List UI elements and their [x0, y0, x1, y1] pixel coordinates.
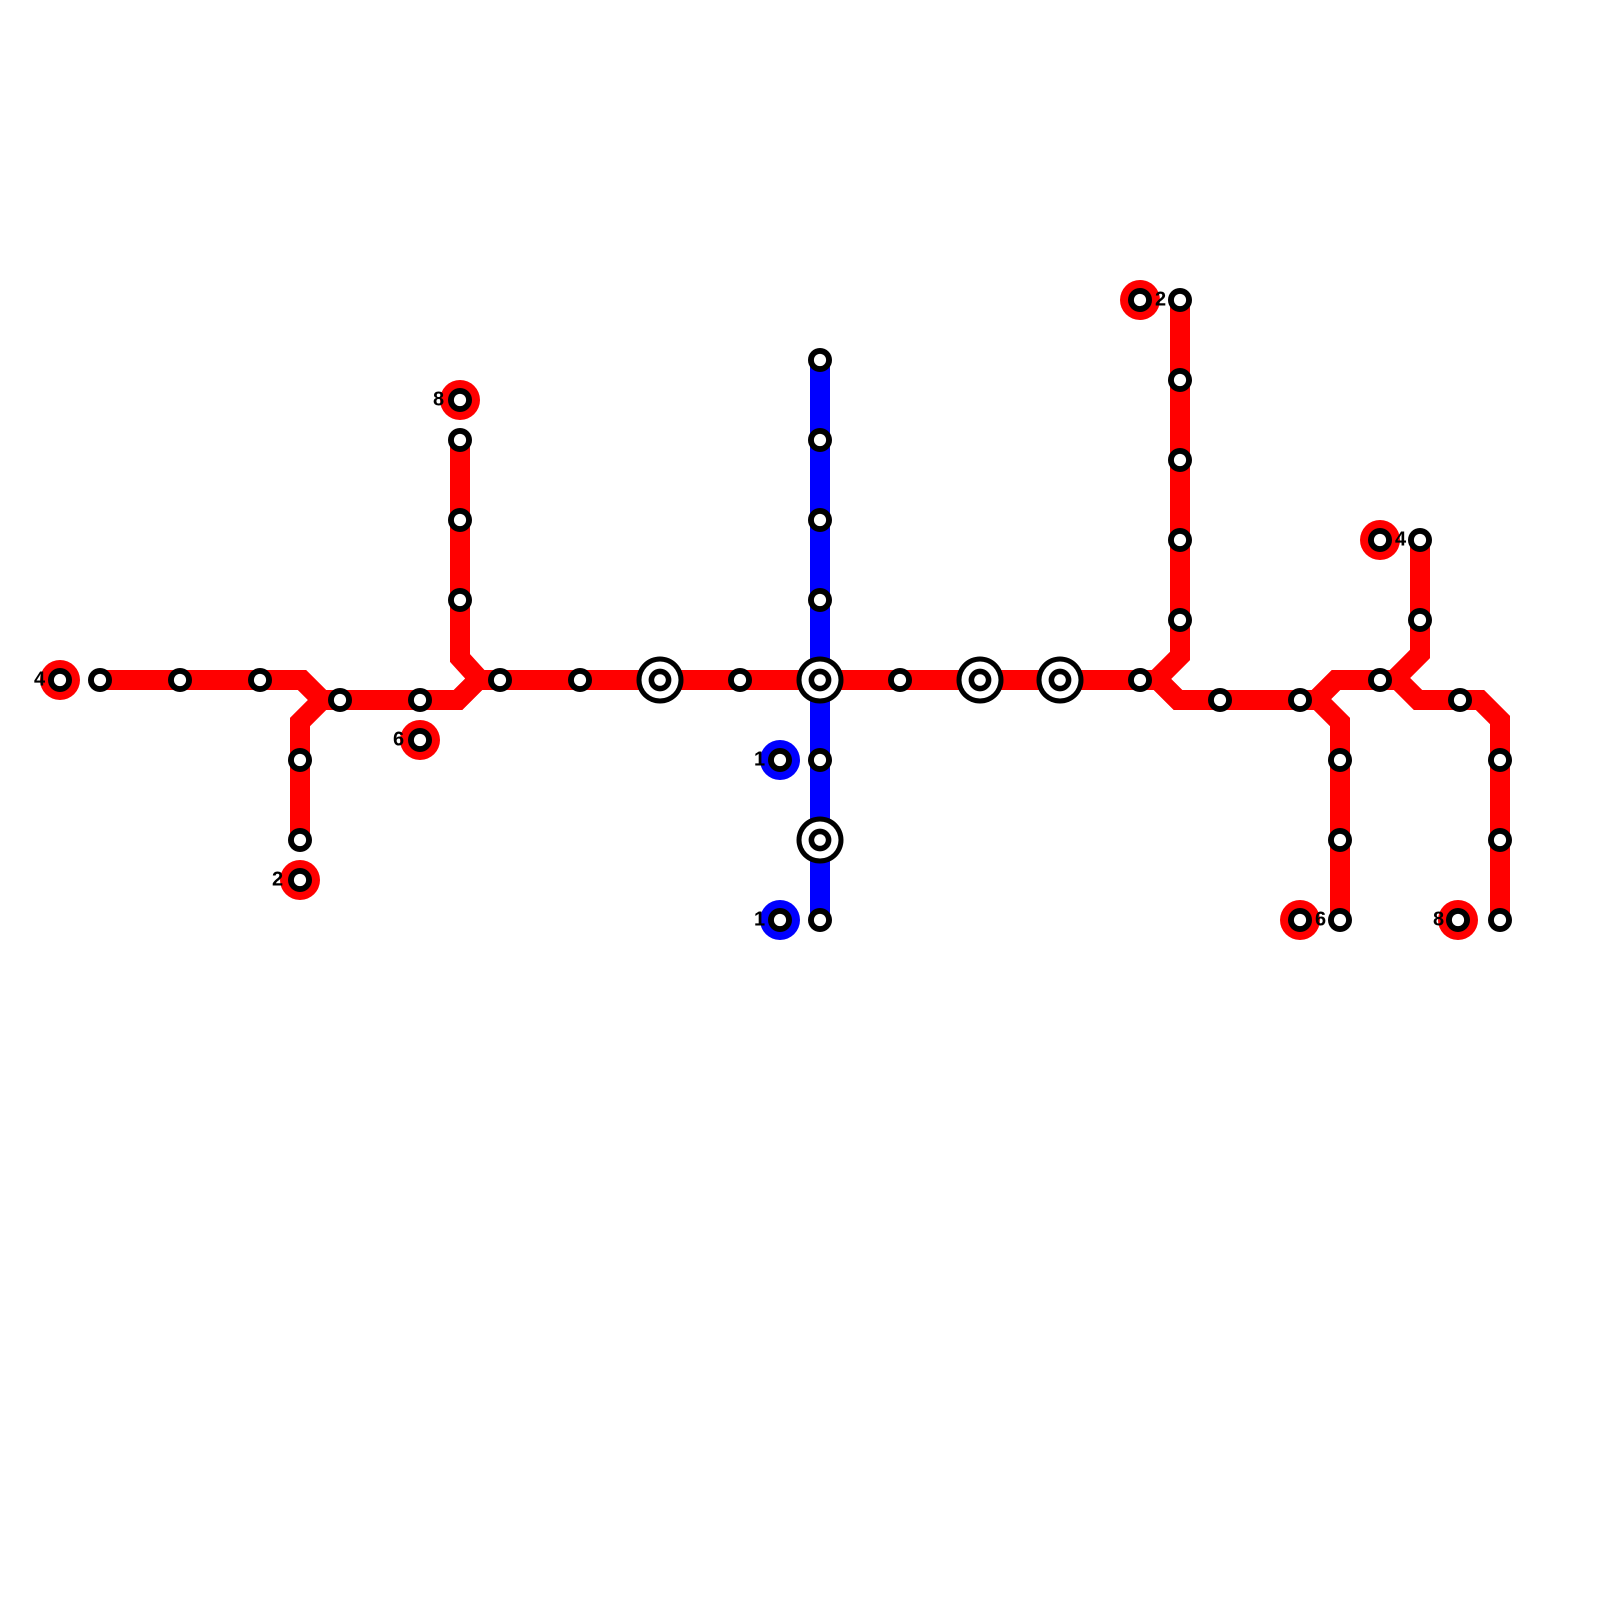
svg-text:1: 1 — [754, 909, 765, 931]
node station (1420,540) — [1408, 528, 1432, 552]
node station (460,440) — [448, 428, 472, 452]
node terminus station ring line 2 south-west terminus — [288, 868, 312, 892]
node station (820,440) — [808, 428, 832, 452]
node station (820,360) — [808, 348, 832, 372]
node station (820,600) — [808, 588, 832, 612]
node terminus disc line 8 south-east terminus — [1438, 900, 1478, 940]
node station (1180,540) — [1168, 528, 1192, 552]
node terminus station ring line 1 upper terminus — [768, 748, 792, 772]
node station (500,680) — [488, 668, 512, 692]
node station (300,760) — [288, 748, 312, 772]
node terminus station ring line 6 south-east terminus — [1288, 908, 1312, 932]
node station (260,680) — [248, 668, 272, 692]
node terminus station ring line 4 west terminus — [48, 668, 72, 692]
node interchange station (1060,680) — [1037, 657, 1084, 704]
node station (1460,700) — [1448, 688, 1472, 712]
node terminus station ring line 8 north terminus — [448, 388, 472, 412]
node station (1500,920) — [1488, 908, 1512, 932]
svg-text:2: 2 — [272, 869, 283, 891]
node station (1180,460) — [1168, 448, 1192, 472]
svg-text:6: 6 — [393, 729, 404, 751]
svg-text:6: 6 — [1315, 909, 1326, 931]
node interchange station (820,680) — [797, 657, 844, 704]
node terminus disc line 6 west terminus — [400, 720, 440, 760]
svg-text:8: 8 — [1433, 909, 1444, 931]
node station (1500,840) — [1488, 828, 1512, 852]
node station (460,600) — [448, 588, 472, 612]
node station (1420,620) — [1408, 608, 1432, 632]
node station (1300,700) — [1288, 688, 1312, 712]
node station (900,680) — [888, 668, 912, 692]
node station (1500,760) — [1488, 748, 1512, 772]
node station (460,520) — [448, 508, 472, 532]
node station (580,680) — [568, 668, 592, 692]
wire red line 6 (from station 420,700 to south branch x=1340) — [420, 680, 1340, 920]
node terminus disc line 2 south-west terminus — [280, 860, 320, 900]
node terminus disc line 4 west terminus — [40, 660, 80, 700]
node station (1340,840) — [1328, 828, 1352, 852]
node terminus station ring line 4 east terminus — [1368, 528, 1392, 552]
node station (180,680) — [168, 668, 192, 692]
node terminus station ring line 6 west terminus — [408, 728, 432, 752]
node terminus station ring line 2 north-east terminus — [1128, 288, 1152, 312]
node station (740,680) — [728, 668, 752, 692]
svg-text:8: 8 — [433, 389, 444, 411]
node terminus station ring line 1 lower terminus — [768, 908, 792, 932]
node station (1220,700) — [1208, 688, 1232, 712]
node station (1380,680) — [1368, 668, 1392, 692]
node terminus disc line 8 north terminus — [440, 380, 480, 420]
node interchange station (820,840) — [797, 817, 844, 864]
wire red line 2 (south branch x=300 to north branch x=1180) — [300, 300, 1180, 840]
svg-text:2: 2 — [1155, 289, 1166, 311]
wire blue line 1 (vertical x=820) — [810, 360, 830, 920]
node terminus disc line 6 south-east terminus — [1280, 900, 1320, 940]
node terminus disc line 1 upper terminus — [760, 740, 800, 780]
node station (100,680) — [88, 668, 112, 692]
node station (820,920) — [808, 908, 832, 932]
node station (1180,380) — [1168, 368, 1192, 392]
node interchange station (660,680) — [637, 657, 684, 704]
wire red line 8 (north branch x=460 to south-east branch x=1500) — [460, 440, 1500, 920]
node station (820,760) — [808, 748, 832, 772]
node interchange station (980,680) — [957, 657, 1004, 704]
node station (1140,680) — [1128, 668, 1152, 692]
node station (300,840) — [288, 828, 312, 852]
node station (820,520) — [808, 508, 832, 532]
node terminus station ring line 8 south-east terminus — [1446, 908, 1470, 932]
node terminus disc line 1 lower terminus — [760, 900, 800, 940]
node station (1340,920) — [1328, 908, 1352, 932]
node terminus disc line 2 north-east terminus — [1120, 280, 1160, 320]
node station (1340,760) — [1328, 748, 1352, 772]
wire red line 4 (west-east trunk to upper-right branch) — [100, 540, 1420, 700]
node station (1180,620) — [1168, 608, 1192, 632]
svg-text:4: 4 — [34, 669, 46, 691]
node station (420,700) — [408, 688, 432, 712]
svg-text:4: 4 — [1395, 529, 1407, 551]
svg-text:1: 1 — [754, 749, 765, 771]
node station (340,700) — [328, 688, 352, 712]
node station (1180,300) — [1168, 288, 1192, 312]
node terminus disc line 4 east terminus — [1360, 520, 1400, 560]
